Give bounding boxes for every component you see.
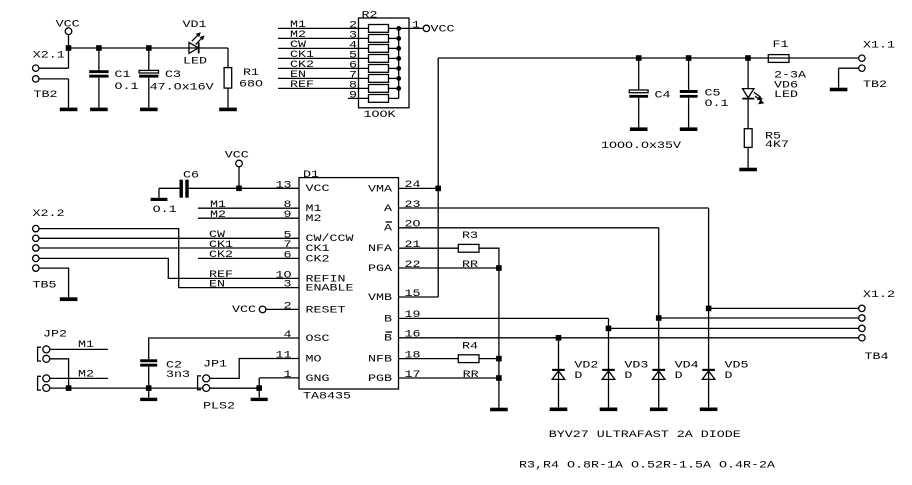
wire A-bar vertical / VD4 branch: [658, 228, 660, 408]
svg-text:3: 3: [284, 279, 292, 291]
connector X2.2 pin 5: [33, 265, 39, 271]
svg-text:R3,R4 O.8R-1A O.52R-1.5A O.4R-: R3,R4 O.8R-1A O.52R-1.5A O.4R-2A: [519, 459, 776, 471]
svg-text:M2: M2: [306, 213, 322, 225]
svg-text:RR: RR: [462, 259, 478, 271]
wire RESET VCC to pin 2: [266, 308, 299, 310]
svg-text:TB5: TB5: [33, 280, 57, 292]
wire VCC terminal to rail: [68, 35, 70, 49]
resistor R2 element 3: [369, 45, 389, 53]
ground X1.1: [830, 88, 848, 92]
wire VD6 top: [747, 58, 749, 89]
diode VD4: [652, 370, 665, 380]
svg-text:68O: 68O: [239, 78, 263, 90]
junction rail/VD6: [745, 55, 751, 61]
svg-text:O.1: O.1: [153, 204, 177, 216]
wire A-bar to X1.2 pin 2: [659, 317, 859, 319]
wire D1 pin 8 M1 stub: [198, 207, 299, 209]
svg-text:M1: M1: [78, 339, 94, 351]
junction B/X1.2 pin3: [606, 326, 612, 332]
op-amp U1 IC D1 TA8435 body: [299, 178, 399, 389]
wire R2 pin 8 (REF): [278, 87, 369, 89]
wire R2 element 5 to common bus: [389, 67, 399, 69]
svg-text:2O: 2O: [405, 219, 421, 231]
resistor R5: [744, 129, 752, 148]
svg-text:NFA: NFA: [368, 243, 393, 255]
svg-text:VCC: VCC: [232, 304, 256, 316]
junction VCC/C6/pin13: [236, 186, 242, 192]
resistor network R2 body: [359, 18, 410, 108]
wire VMA/VMB supply drop: [437, 58, 439, 297]
svg-text:2: 2: [284, 300, 292, 312]
junction JP2 pin2/common: [66, 385, 72, 391]
jumper JP2 bracket upper: [38, 347, 41, 361]
svg-text:B: B: [384, 313, 392, 325]
svg-text:1: 1: [284, 369, 292, 381]
svg-text:21: 21: [405, 239, 421, 251]
svg-text:C1: C1: [115, 69, 131, 81]
svg-text:9: 9: [284, 209, 292, 221]
LED VD6: [742, 89, 764, 105]
wire R1 to ground: [227, 88, 229, 108]
svg-text:B: B: [384, 333, 392, 345]
connector X2.2 pin 1: [33, 225, 39, 231]
connector X2.2 pin 3: [33, 245, 39, 251]
wire VCC rail drop to X2.1 pin1: [68, 48, 70, 68]
svg-text:D1: D1: [303, 169, 319, 181]
svg-text:R3: R3: [462, 230, 478, 242]
wire C3 top: [148, 48, 150, 70]
resistor R1: [224, 68, 232, 89]
wire GNG (pin 1) drop: [258, 378, 260, 388]
wire C2 bottom to junction: [148, 367, 150, 389]
wire D1 pin 9 M2 stub: [198, 217, 299, 219]
junction PGA/sense bus: [496, 265, 502, 271]
resistor R4: [458, 355, 479, 363]
svg-text:4: 4: [284, 329, 292, 341]
ground C4: [630, 127, 648, 131]
svg-text:VCC: VCC: [306, 183, 330, 195]
svg-text:EN: EN: [209, 278, 225, 290]
VCC terminal (RESET): [259, 306, 266, 313]
ground GNG: [251, 398, 268, 401]
junction C2/common: [146, 385, 152, 391]
ground C5: [680, 127, 698, 131]
svg-text:A: A: [384, 203, 393, 215]
svg-text:GNG: GNG: [306, 373, 330, 385]
svg-text:R1: R1: [243, 67, 259, 79]
svg-text:D: D: [725, 370, 733, 382]
svg-text:JP2: JP2: [43, 329, 67, 341]
svg-text:X1.2: X1.2: [863, 289, 895, 301]
wire X2.2 pin3 to CK1 (pin 7): [39, 247, 299, 249]
capacitor C6 right plate: [185, 180, 188, 198]
wire logic VCC rail: [69, 47, 229, 49]
connector X2.1 pin 2: [33, 76, 39, 82]
connector X1.2 pin 2: [859, 315, 865, 321]
wire C5 bottom: [688, 98, 690, 128]
capacitor C4 top plate (polarized): [629, 90, 648, 93]
wire JP2 pin3 M2 stub: [50, 377, 108, 379]
svg-text:19: 19: [405, 309, 421, 321]
wire R2 element 3 to common bus: [389, 47, 399, 49]
svg-text:RESET: RESET: [306, 304, 346, 316]
svg-text:6: 6: [284, 249, 292, 261]
fuse F1: [768, 55, 789, 63]
wire VMB pin 15 to supply: [399, 296, 439, 298]
svg-text:TB4: TB4: [865, 351, 889, 363]
capacitor C2 top plate: [140, 359, 157, 362]
wire C5 top: [688, 58, 690, 90]
junction R2 bus row 5: [396, 66, 401, 71]
junction B-bar/VD2: [556, 335, 562, 341]
diode VD2: [552, 370, 565, 380]
svg-text:ENABLE: ENABLE: [306, 283, 354, 295]
wire R2 element 7 to common bus: [389, 87, 399, 89]
wire B-bar (pin 16) to X1.2 pin 4: [399, 337, 859, 339]
ground VD3: [600, 408, 618, 412]
wire R2 pin 2 (M1): [278, 27, 369, 29]
svg-text:X2.2: X2.2: [33, 208, 65, 220]
resistor R2 element 8: [369, 95, 389, 103]
svg-text:C4: C4: [655, 89, 671, 101]
wire R2 element 2 to common bus: [389, 37, 399, 39]
ground C2: [140, 398, 157, 401]
wire R2 pin 3 (M2): [278, 37, 369, 39]
junction R2 bus row 3: [396, 46, 401, 51]
svg-text:PGB: PGB: [368, 373, 392, 385]
svg-text:JP1: JP1: [203, 359, 227, 371]
wire VMA pin 24 to supply: [399, 187, 439, 189]
svg-text:C3: C3: [165, 69, 181, 81]
svg-text:VMB: VMB: [368, 292, 392, 304]
junction R2 bus row 4: [396, 56, 401, 61]
svg-text:9: 9: [349, 89, 357, 101]
wire VD2 branch: [558, 338, 560, 408]
svg-text:47.Ox16V: 47.Ox16V: [150, 82, 215, 94]
svg-text:VCC: VCC: [431, 23, 455, 35]
wire C1 top: [98, 48, 100, 70]
wire GNG pin 1: [259, 377, 299, 379]
diode VD3: [602, 370, 615, 380]
junction rail/C4: [636, 55, 642, 61]
connector X2.2 pin 4: [33, 255, 39, 261]
svg-text:23: 23: [405, 199, 421, 211]
svg-text:LED: LED: [183, 56, 207, 68]
wire X2.2 pin5 to ground: [39, 268, 69, 297]
svg-text:O.1: O.1: [705, 98, 729, 110]
wire PGA pin 22 RR: [399, 267, 499, 269]
wire VD6 to R5: [747, 99, 749, 129]
connector X2.1 pin 1: [33, 65, 39, 71]
overbar for pin label A: [386, 221, 392, 223]
wire C2 ground stem: [148, 388, 150, 398]
overbar for pin label B: [386, 331, 392, 333]
jumper JP2 pin 4: [43, 385, 50, 392]
junction R2 bus row 2: [396, 36, 401, 41]
svg-text:R2: R2: [362, 10, 378, 22]
svg-text:O.1: O.1: [115, 81, 139, 93]
wire R2 element 8 to common bus: [389, 97, 399, 99]
jumper JP2 pin 1: [43, 346, 50, 353]
resistor R2 element 5: [369, 65, 389, 73]
svg-text:F1: F1: [773, 39, 789, 51]
junction X2.1/VCC: [66, 45, 72, 51]
resistor R2 element 4: [369, 55, 389, 63]
svg-text:D: D: [624, 370, 632, 382]
wire R2 pin 9 stub: [348, 97, 369, 99]
wire NFB pin 18 to R4: [399, 358, 459, 360]
connector X1.2 pin 1: [859, 305, 865, 311]
junction PGB/sense bus: [496, 375, 502, 381]
ground VD5: [700, 408, 718, 412]
wire C4 top: [638, 58, 640, 90]
resistor R2 element 6: [369, 75, 389, 83]
ground C6: [151, 198, 168, 201]
capacitor C1 bottom plate: [89, 75, 108, 78]
ground VD4: [650, 408, 668, 412]
ground VD2: [550, 408, 568, 412]
wire R2 pin 5 (CK1): [278, 57, 369, 59]
wire C3 bottom: [148, 78, 150, 108]
jumper JP1 bracket: [198, 376, 201, 390]
svg-text:R4: R4: [462, 340, 478, 352]
svg-text:VD1: VD1: [183, 19, 207, 31]
wire motor supply rail: [438, 57, 859, 59]
wire R2 pin 1 to VCC: [399, 27, 424, 29]
wire X2.1 pin2 down to ground: [68, 79, 70, 108]
ground TB5: [60, 297, 78, 301]
junction R2 bus row 6: [396, 76, 401, 81]
capacitor C5 bottom plate: [680, 95, 698, 98]
wire C4 bottom: [638, 98, 640, 128]
wire R2 element 4 to common bus: [389, 57, 399, 59]
wire R2 common bus: [398, 28, 400, 98]
svg-text:TB2: TB2: [34, 89, 58, 101]
svg-text:M2: M2: [78, 368, 94, 380]
svg-text:PGA: PGA: [368, 263, 393, 275]
svg-text:TB2: TB2: [863, 79, 887, 91]
wire R2 pin 6 (CK2): [278, 67, 369, 69]
svg-text:TA8435: TA8435: [303, 390, 351, 402]
wire C1 bottom: [98, 78, 100, 108]
jumper JP2 pin 2: [43, 355, 50, 362]
wire X2.2 pin1 to EN (pin 3): [39, 229, 299, 288]
junction C3/VCC rail: [146, 45, 152, 51]
junction rail/C5: [686, 55, 692, 61]
wire NFA pin 21 to R3: [399, 247, 459, 249]
wire A to X1.2 pin 1: [709, 307, 859, 309]
junction A/X1.2 pin1: [706, 306, 712, 312]
VCC terminal: [65, 28, 72, 35]
capacitor C2 bottom plate: [140, 364, 157, 367]
junction R2 bus row 7: [396, 86, 401, 91]
wire R2 pin 7 (EN): [278, 77, 369, 79]
junction A-bar/X1.2 pin2: [656, 315, 662, 321]
wire X2.2 pin4 to REFIN (pin 10): [39, 258, 299, 278]
svg-text:X2.1: X2.1: [33, 49, 65, 61]
resistor R2 element 2: [369, 35, 389, 43]
connector X1.2 pin 4: [859, 335, 865, 341]
wire X2.2 pin2 to CW/CCW (pin 5): [39, 237, 299, 239]
jumper JP1 pin 1: [203, 375, 210, 382]
VCC terminal (pin 13): [236, 160, 243, 167]
svg-text:4K7: 4K7: [765, 139, 789, 151]
VCC terminal (R2 pin 1): [423, 25, 429, 31]
ground sense bus: [490, 408, 508, 412]
wire R2 element 1 to common bus: [389, 27, 399, 29]
svg-text:OSC: OSC: [306, 333, 330, 345]
wire A (pin 23): [399, 207, 709, 209]
ground C1: [90, 108, 108, 112]
junction GNG/common/ground: [256, 385, 262, 391]
svg-text:BYV27 ULTRAFAST 2A DIODE: BYV27 ULTRAFAST 2A DIODE: [549, 429, 741, 441]
resistor R3: [458, 244, 479, 252]
wire JP2 pin1 M1 stub: [50, 348, 108, 350]
capacitor C1 top plate: [89, 70, 108, 73]
svg-text:VCC: VCC: [225, 150, 249, 162]
svg-text:CK1: CK1: [209, 239, 233, 251]
svg-text:D: D: [574, 370, 582, 382]
wire X2.1 pin2 to ground: [39, 78, 69, 80]
svg-text:CK2: CK2: [209, 249, 233, 261]
wire C6 to D1 VCC pin 13: [189, 187, 299, 189]
jumper JP2 pin 3: [43, 375, 50, 382]
resistor R2 element 7: [369, 85, 389, 93]
wire R4 to sense bus: [479, 358, 499, 360]
svg-text:VMA: VMA: [368, 183, 393, 195]
resistor R2 element 1: [369, 25, 389, 33]
wire D1 pin 6 CK2 stub: [198, 257, 299, 259]
svg-text:D: D: [675, 370, 683, 382]
connector X2.2 pin 2: [33, 235, 39, 241]
junction C1/VCC rail: [96, 45, 102, 51]
svg-text:17: 17: [405, 369, 421, 381]
capacitor C4 bottom plate: [629, 95, 648, 98]
wire JP1 pin1 to MO (pin 11): [210, 359, 299, 379]
wire GNG ground stem: [258, 388, 260, 398]
connector X1.1 pin 2: [859, 65, 865, 71]
wire X1.1 ground drop: [838, 68, 840, 88]
wire PGB pin 17 RR: [399, 377, 499, 379]
svg-text:MO: MO: [306, 353, 322, 365]
wire LED to R1: [227, 48, 229, 68]
svg-text:M2: M2: [210, 209, 226, 221]
wire C6 ground drop: [158, 188, 160, 198]
svg-text:CK2: CK2: [306, 253, 330, 265]
svg-text:X1.1: X1.1: [863, 40, 895, 52]
wire B to X1.2 pin 3: [609, 327, 859, 329]
svg-text:13: 13: [276, 179, 292, 191]
wire R2 element 6 to common bus: [389, 77, 399, 79]
wire X2.1 pin1 to VCC rail: [39, 67, 69, 69]
svg-text:PLS2: PLS2: [203, 401, 235, 413]
wire A vertical / VD5 branch: [708, 208, 710, 408]
jumper JP1 pin 2: [203, 385, 210, 392]
junction VMA pin 24: [435, 186, 441, 192]
svg-text:1: 1: [412, 19, 420, 31]
svg-text:1OOK: 1OOK: [364, 109, 397, 121]
diode VD5: [702, 370, 715, 380]
svg-text:2-3A: 2-3A: [774, 70, 807, 82]
wire A-bar (pin 20): [399, 227, 659, 229]
wire X1.1 pin2 to ground: [839, 67, 859, 69]
wire C2 to OSC (pin 4): [149, 338, 299, 359]
wire R5 to ground: [747, 147, 749, 167]
svg-text:24: 24: [405, 179, 421, 191]
svg-text:1OOO.Ox35V: 1OOO.Ox35V: [601, 140, 682, 152]
svg-text:RR: RR: [463, 369, 479, 381]
wire B vertical / VD3 branch: [608, 318, 610, 407]
capacitor C5 top plate: [680, 90, 698, 93]
wire R2 pin 4 (CW): [278, 47, 369, 49]
junction R2 bus row 1: [396, 26, 401, 31]
junction R4/sense bus: [496, 356, 502, 362]
svg-text:11: 11: [276, 350, 292, 362]
svg-text:LED: LED: [774, 89, 798, 101]
ground R1: [219, 108, 237, 112]
capacitor C3 bottom plate: [139, 75, 158, 78]
capacitor C6 left plate: [180, 180, 183, 198]
wire R3 to sense bus: [479, 248, 499, 408]
wire C6 to ground corner: [159, 187, 180, 189]
ground R5: [739, 168, 757, 172]
svg-text:16: 16: [405, 329, 421, 341]
wire JP1 pin2 to common: [210, 387, 260, 389]
capacitor C3 top plate (polarized): [139, 70, 158, 73]
wire VCC terminal to pin 13: [238, 167, 240, 189]
svg-text:22: 22: [405, 259, 421, 271]
LED VD1: [189, 32, 205, 53]
jumper JP2 bracket lower: [38, 376, 41, 390]
ground C3: [140, 108, 158, 112]
svg-text:REF: REF: [290, 79, 314, 91]
wire JP2 pin2 to common: [50, 359, 69, 388]
svg-text:18: 18: [405, 349, 421, 361]
svg-text:15: 15: [405, 288, 421, 300]
svg-text:3n3: 3n3: [166, 369, 190, 381]
svg-text:A: A: [384, 223, 393, 235]
wire B (pin 19): [399, 317, 609, 319]
svg-text:NFB: NFB: [368, 354, 392, 366]
wire JP2 common to GNG junction: [50, 387, 259, 389]
connector X1.1 pin 1: [859, 55, 865, 61]
ground X2.1: [60, 108, 78, 112]
connector X1.2 pin 3: [859, 325, 865, 331]
